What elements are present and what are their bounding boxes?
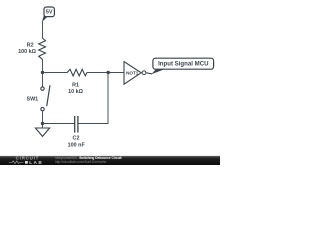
svg-text:10 kΩ: 10 kΩ	[68, 89, 83, 95]
svg-text:NOT1: NOT1	[126, 71, 139, 76]
footer CircuitLab logo node square	[25, 161, 28, 164]
resistor R1	[67, 69, 87, 76]
wire SW1 to node C	[42, 111, 44, 124]
svg-text:LAB: LAB	[29, 160, 43, 165]
footer bar	[0, 156, 220, 165]
svg-text:Input Signal MCU: Input Signal MCU	[158, 61, 209, 68]
power flag 5V tail	[42, 15, 48, 23]
svg-text:http://circuitlab.com/c5ur511l: http://circuitlab.com/c5ur511lmhw6w	[55, 160, 107, 164]
wire bubble to flag	[146, 73, 152, 74]
node A junction dot	[41, 71, 44, 74]
net flag Input Signal MCU tail	[151, 68, 164, 74]
svg-text:100 nF: 100 nF	[68, 142, 86, 148]
switch SW1 top terminal	[41, 87, 44, 90]
net flag Input Signal MCU box	[153, 58, 214, 69]
svg-text:R1: R1	[72, 83, 79, 89]
ground	[35, 124, 49, 137]
wire node B down and to C2	[78, 73, 108, 124]
wire 5V to R2	[42, 22, 44, 39]
svg-text:100 kΩ: 100 kΩ	[18, 49, 36, 55]
wire node A to R1	[43, 72, 68, 74]
inverter NOT1 body	[124, 62, 141, 85]
wire R1 to NOT gate	[87, 72, 124, 74]
footer CircuitLab logo resistor squiggle	[9, 161, 24, 164]
power flag 5V box	[44, 7, 54, 17]
resistor R2	[39, 38, 46, 59]
svg-text:C2: C2	[73, 136, 80, 142]
svg-text:5V: 5V	[46, 10, 53, 16]
svg-text:SW1: SW1	[27, 96, 39, 102]
svg-text:R2: R2	[27, 43, 34, 49]
inverter NOT1 output bubble	[142, 71, 146, 75]
switch SW1 bottom terminal	[41, 107, 44, 110]
capacitor C2	[75, 116, 78, 133]
wire node C to C2	[43, 123, 75, 125]
node B junction dot	[107, 71, 110, 74]
switch SW1 lever	[47, 85, 50, 106]
node C junction dot	[41, 122, 44, 125]
wire R2 to switch	[42, 59, 44, 87]
